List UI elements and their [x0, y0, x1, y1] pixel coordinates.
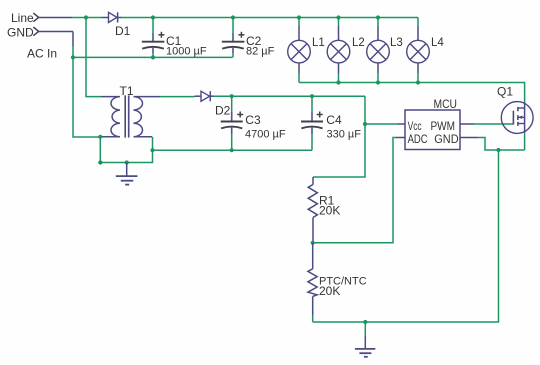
wire bottom ground rail	[313, 150, 499, 322]
node lamp rail junctions	[336, 80, 420, 84]
svg-text:4700 µF: 4700 µF	[245, 129, 286, 141]
svg-text:L1: L1	[312, 37, 325, 49]
svg-text:Q1: Q1	[497, 84, 513, 98]
wire secondary top to D2	[160, 96, 195, 98]
node junction (73,57)	[71, 55, 75, 59]
resistor PTC/NTC	[308, 243, 367, 322]
svg-text:20K: 20K	[319, 284, 340, 298]
svg-text:Vcc: Vcc	[408, 121, 422, 133]
svg-text:L3: L3	[390, 37, 403, 49]
wire Vcc feed vertical	[313, 96, 365, 177]
lamp L4	[407, 18, 445, 83]
op-amp U1 MCU block	[405, 99, 460, 149]
svg-text:Line: Line	[11, 11, 34, 25]
svg-text:GND: GND	[7, 25, 34, 39]
wire AC-in left drop	[73, 57, 101, 137]
wire MCU GND to source	[460, 138, 525, 151]
node junction (100.3,162.5)	[98, 160, 102, 164]
wire secondary rail	[214, 95, 365, 97]
svg-text:D2: D2	[215, 103, 231, 117]
svg-text:PWM: PWM	[431, 121, 456, 133]
svg-text:C4: C4	[326, 113, 342, 127]
svg-text:330 µF: 330 µF	[327, 129, 362, 141]
wire Q1 source down	[524, 133, 526, 150]
node secondary rail junctions	[230, 94, 315, 98]
resistor R1	[308, 177, 340, 243]
svg-text:1000 µF: 1000 µF	[166, 46, 207, 58]
capacitor C1	[142, 18, 207, 58]
svg-text:ADC: ADC	[408, 134, 428, 146]
svg-text:AC In: AC In	[27, 47, 57, 61]
wire primary/secondary bottom loop	[100, 137, 152, 163]
wire GND input	[39, 32, 73, 58]
capacitor C3	[221, 96, 286, 150]
wire secondary bottom rail	[153, 149, 313, 151]
ground bottom	[355, 322, 375, 357]
node junction (231.7,150.2)	[230, 148, 234, 152]
svg-text:D1: D1	[115, 24, 131, 38]
svg-text:20K: 20K	[319, 204, 340, 218]
capacitor C2	[222, 18, 275, 58]
port Line	[11, 11, 39, 25]
node junction (152.5,150)	[150, 148, 154, 152]
node junction (153,57)	[151, 55, 155, 59]
wire neutral rail	[73, 56, 233, 58]
wire Line input	[39, 17, 102, 19]
wire top rail	[122, 17, 419, 19]
node junction (365,124)	[363, 122, 367, 126]
wire PWM to gate	[460, 123, 513, 125]
transistor Q1	[497, 84, 533, 133]
lamp L3	[367, 18, 403, 83]
svg-text:L2: L2	[352, 37, 365, 49]
node junction (312.5,242.8)	[311, 241, 315, 245]
svg-text:L4: L4	[431, 37, 444, 49]
svg-text:MCU: MCU	[434, 99, 458, 111]
wire Vcc to MCU	[365, 123, 405, 125]
svg-text:T1: T1	[120, 84, 134, 98]
capacitor C4	[301, 96, 361, 150]
node top rail junctions	[84, 15, 380, 19]
diode D1	[102, 12, 131, 38]
svg-text:82 µF: 82 µF	[246, 46, 275, 58]
diode D2	[195, 91, 231, 117]
svg-text:C3: C3	[245, 113, 261, 127]
svg-text:GND: GND	[434, 134, 458, 146]
wire lamp return rail	[299, 83, 525, 103]
node junction (365.3,322)	[363, 320, 367, 324]
lamp L1	[288, 18, 325, 83]
node junction (126.7,162.5)	[125, 160, 129, 164]
ground transformer	[116, 163, 138, 185]
port GND	[7, 25, 39, 39]
lamp L2	[327, 18, 365, 83]
node junction (498.5,150)	[496, 148, 500, 152]
wire primary feed vertical	[86, 18, 101, 97]
wire ADC to divider	[313, 138, 406, 243]
node junction (100,137)	[98, 135, 102, 139]
transformer T1	[101, 84, 160, 138]
